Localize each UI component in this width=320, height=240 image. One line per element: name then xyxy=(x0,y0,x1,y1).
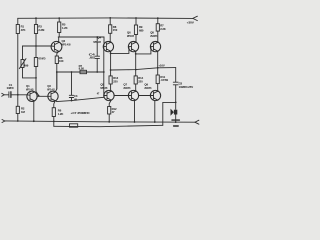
transistor Q8 xyxy=(150,41,160,51)
speaker xyxy=(171,109,178,116)
resistor R3 xyxy=(34,25,37,34)
junction (103.8,72) xyxy=(103,71,105,73)
svg-text:10MFD: 10MFD xyxy=(7,86,14,90)
junction (36,77.9) xyxy=(35,77,37,79)
svg-text:MPS-A05: MPS-A05 xyxy=(93,40,101,44)
wire xyxy=(157,68,159,75)
input connector arrow xyxy=(2,93,4,96)
wire xyxy=(135,84,137,91)
junction (56.8,72) xyxy=(56,71,58,73)
resistor R14 xyxy=(134,76,137,84)
wire Q8 emitter / output node xyxy=(157,51,159,68)
svg-text:1.2K: 1.2K xyxy=(62,26,68,30)
junction (97.2,72) xyxy=(96,71,98,73)
svg-text:100: 100 xyxy=(59,59,64,63)
wire xyxy=(35,34,37,47)
wire link to Q9 base xyxy=(138,95,150,97)
wire Q1 emitter xyxy=(33,101,35,121)
wire C4 column xyxy=(96,37,98,56)
wire Q6 emitter to Q8 base xyxy=(136,47,151,54)
wire base column xyxy=(103,46,105,97)
svg-text:2.2M: 2.2M xyxy=(38,28,45,32)
capacitor C1 xyxy=(8,92,10,98)
junction (53.8,121.4) xyxy=(53,121,55,123)
connector arrow +30V (top right) xyxy=(193,16,198,20)
node R7t column xyxy=(157,18,159,24)
node R8 column xyxy=(109,18,111,25)
svg-text:+16V: +16V xyxy=(158,63,164,67)
wire Q3 collector xyxy=(55,72,57,92)
resistor R13 xyxy=(109,76,112,84)
svg-text:MPS-A05: MPS-A05 xyxy=(26,88,34,92)
svg-text:10MFD-25V: 10MFD-25V xyxy=(179,85,194,89)
junction (17.8,94.8) xyxy=(17,94,19,96)
capacitor C2 xyxy=(34,58,37,67)
junction (17.8,121) xyxy=(17,120,19,122)
svg-text:680: 680 xyxy=(139,28,144,32)
svg-text:+30V: +30V xyxy=(187,21,194,25)
junction (154.8,122.05) xyxy=(154,121,156,123)
transistor Q2 xyxy=(51,41,62,52)
node R1/R2 column xyxy=(17,18,19,24)
junction (175.7,122.1) xyxy=(175,121,177,123)
wire xyxy=(35,46,37,58)
wire Q3 emitter xyxy=(54,101,55,108)
svg-text:220: 220 xyxy=(138,79,143,83)
junction (110.6,70) xyxy=(110,69,112,71)
svg-text:MPS-A05: MPS-A05 xyxy=(62,42,71,46)
capacitor C8 xyxy=(173,82,178,85)
junction (36,46) xyxy=(35,45,37,47)
resistor R7 xyxy=(80,70,87,73)
wire Q4 emitter to Q5 base xyxy=(111,47,129,54)
node R9 column xyxy=(135,18,137,25)
junction dots xyxy=(17,17,177,123)
wire xyxy=(53,117,55,127)
wire xyxy=(56,64,58,73)
svg-text:+C7 350MFD: +C7 350MFD xyxy=(71,111,90,115)
node R3 column xyxy=(35,18,37,24)
trimmer R4 xyxy=(21,60,24,68)
wire feedback mid rail xyxy=(57,71,104,73)
svg-text:2N3055: 2N3055 xyxy=(123,86,130,90)
wire xyxy=(157,84,159,92)
transistor Q7 xyxy=(128,90,138,100)
connector arrow (bottom right) xyxy=(195,120,199,124)
V+ top rail xyxy=(18,17,193,20)
wire lower link xyxy=(56,97,103,101)
svg-text:470 MFD: 470 MFD xyxy=(38,57,45,61)
wire xyxy=(96,58,98,72)
junction (136,18) xyxy=(135,17,137,19)
wire feedback bottom line xyxy=(54,125,163,126)
junction (157.7,67.8) xyxy=(157,67,159,69)
connector arrow (bottom left) xyxy=(2,120,5,123)
ground bar xyxy=(172,120,179,126)
svg-text:.47/4W: .47/4W xyxy=(160,78,168,82)
svg-text:MPS-A05: MPS-A05 xyxy=(47,88,55,92)
node R5 column xyxy=(58,18,60,22)
svg-text:Q4: Q4 xyxy=(97,36,101,40)
junction (110.2,17.9) xyxy=(109,17,111,19)
junction (157.8,18.1) xyxy=(157,17,159,19)
svg-text:MPSU05: MPSU05 xyxy=(100,86,107,90)
svg-text:1.2K: 1.2K xyxy=(58,112,64,116)
resistor R10t xyxy=(156,24,159,31)
transistor Q4 xyxy=(103,41,113,51)
wire Q5low emitter xyxy=(109,100,111,106)
capacitor C3 xyxy=(69,95,73,97)
resistor R9 xyxy=(134,25,137,35)
resistor R6a xyxy=(55,56,58,64)
wire link to Q7 base xyxy=(114,95,129,97)
wire xyxy=(17,114,19,122)
wire Q9 emitter xyxy=(154,100,156,122)
wire Q2 emitter xyxy=(57,51,59,56)
wire xyxy=(71,98,73,101)
resistor R5 xyxy=(58,22,61,33)
wire Q1 collector riser xyxy=(36,67,39,96)
junction (38.6,95.8) xyxy=(38,95,40,97)
wire xyxy=(22,46,24,60)
wire xyxy=(157,31,159,42)
ground bottom rail xyxy=(5,121,195,122)
wire xyxy=(17,34,19,107)
transistor Q3 xyxy=(48,91,58,101)
junction (135.7,69.6) xyxy=(135,69,137,71)
junction (36,18.2) xyxy=(35,17,37,19)
junction (59.2,18.1) xyxy=(58,17,60,19)
transistor Q9 xyxy=(150,90,160,100)
svg-text:2N3055: 2N3055 xyxy=(150,34,157,38)
wire emitter column to Q3 xyxy=(56,72,58,89)
labels xyxy=(7,21,195,116)
wire xyxy=(108,114,110,122)
wire emitter drop xyxy=(135,54,137,76)
wire input to C1 xyxy=(4,94,8,96)
svg-text:8.2K: 8.2K xyxy=(79,67,85,71)
svg-text:150: 150 xyxy=(113,28,118,32)
wire bias node xyxy=(23,45,52,47)
resistor R11 xyxy=(156,75,159,84)
wire emitter drop xyxy=(110,53,112,76)
wire output xyxy=(111,68,176,70)
wire driver node xyxy=(58,37,104,47)
wire Q2 collector xyxy=(58,37,60,42)
wire C3 lead xyxy=(71,72,73,95)
junction (33.8,121.2) xyxy=(33,120,35,122)
junction (109.2,121.9) xyxy=(108,121,110,123)
wire C1 to Q1 base xyxy=(11,94,28,96)
wire xyxy=(58,33,60,38)
wire Q7 emitter xyxy=(134,100,136,122)
wire xyxy=(110,84,113,91)
wire xyxy=(135,35,137,43)
svg-text:47K: 47K xyxy=(21,28,26,32)
wire speaker to ground xyxy=(175,115,177,123)
wire xyxy=(23,68,37,78)
svg-text:499: 499 xyxy=(24,64,29,68)
wire Q1 to Q3 xyxy=(37,95,48,97)
capacitor C7 xyxy=(70,124,78,127)
svg-text:2N3055: 2N3055 xyxy=(144,86,151,90)
resistor R2 xyxy=(16,106,19,113)
junction (97.2,37) xyxy=(96,36,98,38)
svg-text:2.2K: 2.2K xyxy=(160,27,166,31)
junction (175.7,102.4) xyxy=(175,102,177,104)
resistor R12 xyxy=(108,107,111,115)
svg-text:.05: .05 xyxy=(89,55,96,59)
svg-text:MPSU05: MPSU05 xyxy=(127,34,134,38)
wire output cap lead xyxy=(175,68,177,82)
junction (110.6,53) xyxy=(110,53,112,55)
junction (71.5,100.6) xyxy=(71,100,73,102)
wire to speaker xyxy=(175,85,177,110)
transistor Q6 xyxy=(128,41,138,51)
wire feedback hook xyxy=(163,102,176,125)
transistor Q1 xyxy=(27,91,37,101)
capacitor C4 xyxy=(95,56,100,58)
resistor R8 xyxy=(109,25,112,34)
junction (135.7,53.5) xyxy=(135,53,137,55)
junction (71.5,72) xyxy=(71,71,73,73)
resistor R1 xyxy=(16,25,19,34)
transistor Q5low xyxy=(104,90,114,100)
wire xyxy=(109,33,111,42)
resistor R6 xyxy=(52,108,55,117)
junction (134.5,122) xyxy=(134,121,136,123)
svg-text:220: 220 xyxy=(113,79,118,83)
